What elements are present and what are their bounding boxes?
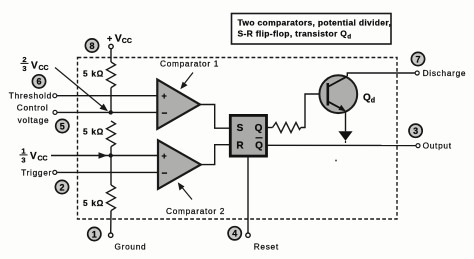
pin 5 circle xyxy=(56,119,69,132)
resistor R4 (base resistor) xyxy=(273,123,301,133)
svg-text:Q: Q xyxy=(255,123,263,134)
control voltage wire xyxy=(57,111,158,113)
svg-text:Trigger: Trigger xyxy=(21,167,52,177)
threshold wire xyxy=(57,95,158,97)
wire node B to R3 xyxy=(110,156,112,186)
svg-text:4: 4 xyxy=(232,229,237,239)
svg-text:Two comparators, potential div: Two comparators, potential divider, xyxy=(238,18,392,28)
svg-text:V: V xyxy=(30,151,37,162)
resistor R3 xyxy=(83,185,116,211)
emitter wire xyxy=(345,111,347,132)
svg-text:−: − xyxy=(162,168,168,179)
pin 5 terminal xyxy=(53,110,57,114)
svg-text:8: 8 xyxy=(89,41,94,51)
comparator U2 (Comparator 2) xyxy=(158,140,201,189)
2/3 Vcc label xyxy=(21,55,49,73)
svg-text:5 kΩ: 5 kΩ xyxy=(83,127,104,137)
wire resistor to base xyxy=(301,94,327,128)
Comparator 1 label xyxy=(160,58,219,89)
svg-text:CC: CC xyxy=(39,65,49,72)
svg-text:V: V xyxy=(31,60,38,71)
wire R2 to node B xyxy=(110,147,112,156)
pin 4 terminal xyxy=(246,233,250,237)
trigger wire xyxy=(57,171,159,173)
flip-flop U3 (S-R flip-flop) xyxy=(230,115,266,156)
IC boundary (dashed) xyxy=(78,58,398,220)
svg-text:3: 3 xyxy=(413,126,418,136)
svg-text:6: 6 xyxy=(36,77,41,87)
svg-text:voltage: voltage xyxy=(18,115,50,125)
transistor Qd xyxy=(319,75,357,113)
pin 2 circle xyxy=(55,180,68,193)
svg-text:+: + xyxy=(162,151,167,161)
node A junction xyxy=(109,110,113,114)
svg-text:−: − xyxy=(162,109,168,120)
pin 7 circle xyxy=(411,52,424,65)
svg-text:Discharge: Discharge xyxy=(423,68,467,78)
comp1 output wire xyxy=(200,105,230,129)
pin 8 circle xyxy=(85,39,98,52)
resistor R2 xyxy=(83,121,116,147)
wire Q to base resistor xyxy=(267,127,273,129)
wire Vcc to R1 xyxy=(110,49,112,62)
svg-text:5 kΩ: 5 kΩ xyxy=(83,198,104,208)
pin 1 circle xyxy=(88,227,101,240)
Q-bar output wire xyxy=(267,144,416,146)
reset wire xyxy=(247,156,249,233)
svg-text:R: R xyxy=(236,141,244,152)
pin 4 circle xyxy=(228,227,241,240)
svg-text:CC: CC xyxy=(38,156,48,163)
pin 6 circle xyxy=(32,75,45,88)
svg-text:Control: Control xyxy=(17,103,49,113)
svg-text:Output: Output xyxy=(423,141,452,151)
svg-text:3: 3 xyxy=(22,64,26,73)
annotation box xyxy=(232,14,392,45)
1/3 Vcc wire with arrow into node B xyxy=(51,152,158,158)
svg-text:5 kΩ: 5 kΩ xyxy=(83,69,104,79)
Comparator 2 label xyxy=(166,182,225,216)
svg-text:Reset: Reset xyxy=(254,242,279,252)
svg-text:2: 2 xyxy=(59,182,64,192)
comparator U1 (Comparator 1) xyxy=(157,80,200,129)
2/3 Vcc pointer arrow xyxy=(55,68,108,112)
resistor R1 xyxy=(83,62,116,88)
1/3 Vcc label xyxy=(20,146,48,164)
svg-text:7: 7 xyxy=(415,54,420,64)
svg-text:3: 3 xyxy=(21,155,25,164)
pin 8 terminal xyxy=(109,44,113,48)
svg-text:1: 1 xyxy=(92,229,97,239)
pin 6 terminal xyxy=(53,94,57,98)
node B junction xyxy=(109,153,113,157)
svg-text:Threshold: Threshold xyxy=(9,91,52,101)
svg-text:Comparator 2: Comparator 2 xyxy=(166,206,225,216)
svg-text:S: S xyxy=(237,123,244,134)
ground (emitter) xyxy=(338,131,352,143)
pin 1 terminal xyxy=(109,233,113,237)
svg-text:1: 1 xyxy=(21,146,25,155)
svg-text:+: + xyxy=(162,91,167,101)
pin 7 terminal xyxy=(415,71,419,75)
pin 3 terminal xyxy=(416,144,420,148)
wire R1 to node A xyxy=(110,88,112,113)
pin 2 terminal xyxy=(53,170,57,174)
svg-text:5: 5 xyxy=(60,121,65,131)
collector wire to discharge xyxy=(347,73,415,76)
svg-text:Q: Q xyxy=(255,141,263,152)
comp2 output wire xyxy=(201,145,231,165)
svg-text:Comparator 1: Comparator 1 xyxy=(160,58,219,68)
svg-text:Ground: Ground xyxy=(115,242,147,252)
Control voltage label xyxy=(17,103,50,125)
wire R3 to ground terminal xyxy=(110,211,112,234)
pin 3 circle xyxy=(409,124,422,137)
svg-text:2: 2 xyxy=(22,55,26,64)
